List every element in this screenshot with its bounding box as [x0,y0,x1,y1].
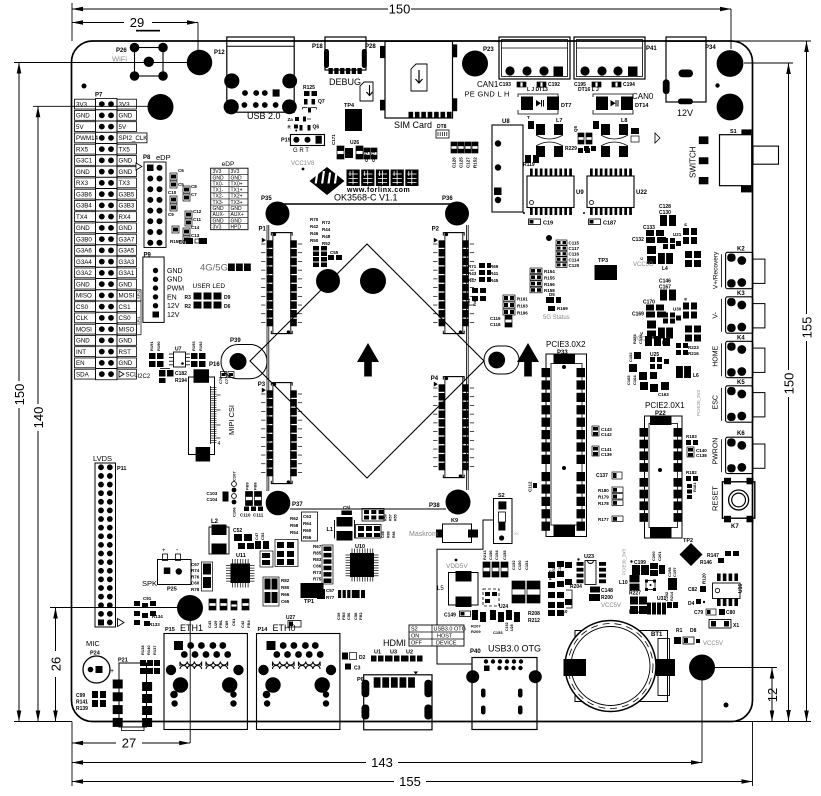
svg-text:C65: C65 [281,599,290,604]
transistor T5 [528,121,534,129]
svg-text:C89: C89 [224,620,229,628]
diamond outline (module area) [250,244,484,478]
svg-text:TX4: TX4 [76,214,88,221]
svg-text:G3B5: G3B5 [119,191,135,198]
svg-text:DT16 L J: DT16 L J [578,87,599,93]
svg-text:Maskrom: Maskrom [409,531,438,538]
svg-text:U2: U2 [406,650,413,656]
svg-text:P7: P7 [95,93,103,99]
svg-text:155: 155 [800,317,815,339]
svg-text:L4: L4 [662,266,668,272]
svg-text:EN: EN [167,294,177,301]
svg-text:C: C [639,332,644,335]
svg-text:L1: L1 [327,527,333,533]
svg-text:150: 150 [389,2,411,17]
svg-text:MOSI: MOSI [119,293,135,300]
svg-text:G3A2: G3A2 [76,270,92,277]
svg-text:V+/Recovery: V+/Recovery [713,251,720,289]
svg-text:R60: R60 [303,528,312,533]
svg-text:R75: R75 [313,577,322,582]
IC U24 [483,589,499,606]
hole in diamond left [316,269,340,293]
svg-text:L2: L2 [211,519,219,525]
CAN0 terminal block P41 [574,37,645,79]
svg-text:VCC1V8: VCC1V8 [291,161,315,167]
svg-text:C6: C6 [178,168,184,173]
svg-text:X1: X1 [733,623,739,629]
svg-text:R50: R50 [310,238,319,243]
svg-text:C80: C80 [726,610,735,616]
svg-text:R138: R138 [140,645,145,655]
svg-text:CLK: CLK [76,315,89,322]
svg-text:FB8: FB8 [253,482,258,490]
svg-text:C61: C61 [231,618,236,626]
svg-text:K5: K5 [737,380,745,386]
svg-text:Q7: Q7 [318,99,325,105]
svg-text:P26: P26 [116,48,127,54]
svg-text:R139: R139 [76,706,88,712]
svg-text:R192: R192 [198,341,203,351]
svg-text:MIPI CSI: MIPI CSI [227,405,236,435]
svg-text:12: 12 [765,688,780,702]
svg-text:C193: C193 [499,82,511,88]
svg-text:C55: C55 [330,250,339,255]
svg-text:L6: L6 [693,373,699,379]
svg-text:R216: R216 [688,351,699,356]
svg-text:R49: R49 [472,298,477,306]
svg-text:D6: D6 [224,304,231,310]
svg-text:R223: R223 [688,345,699,350]
via bottom-right [724,703,729,708]
svg-text:Q6: Q6 [313,125,320,131]
svg-text:P28: P28 [365,44,376,50]
svg-text:R155: R155 [544,275,555,280]
svg-text:R42: R42 [310,224,319,229]
svg-text:P8: P8 [143,155,151,161]
svg-text:U16: U16 [738,584,744,593]
svg-text:C115: C115 [569,241,580,246]
svg-text:R214: R214 [670,591,674,601]
svg-text:C138: C138 [696,453,707,458]
logo text (CJK) [347,170,360,187]
svg-text:C152: C152 [505,622,509,631]
svg-text:K6: K6 [737,431,745,437]
test point TP1 [301,583,324,598]
svg-text:GND: GND [119,338,133,345]
svg-text:CS0: CS0 [76,304,89,311]
svg-text:U1: U1 [374,650,381,656]
svg-text:C169: C169 [632,312,644,318]
svg-text:+: + [162,548,166,554]
svg-text:R224: R224 [632,334,637,344]
dimension 150 top [72,8,388,10]
svg-text:R55: R55 [394,514,398,521]
svg-text:VDD5V: VDD5V [446,563,468,570]
svg-text:MIC: MIC [86,639,100,648]
svg-text:C63: C63 [303,514,312,519]
svg-text:FB4: FB4 [246,620,251,628]
svg-text:27: 27 [122,736,136,751]
push button K5 (ESC) [726,386,753,422]
svg-text:U28: U28 [510,624,514,631]
svg-text:P37: P37 [292,502,303,508]
transistor T1 [646,581,655,590]
svg-text:R70: R70 [310,217,319,222]
svg-text:P14: P14 [258,627,269,633]
svg-text:P1: P1 [259,227,267,233]
svg-text:P11: P11 [117,466,126,472]
board outline [72,41,753,722]
svg-text:R48: R48 [322,234,331,239]
via [82,84,87,89]
svg-text:R47: R47 [468,278,477,283]
svg-text:P36: P36 [442,196,453,202]
dimension 143 bottom [72,762,366,764]
svg-text:D2: D2 [359,655,366,661]
svg-text:C13: C13 [191,233,200,238]
svg-text:C104: C104 [207,497,218,502]
svg-text:R182: R182 [686,470,697,475]
capacitors C156/C154/C155 [483,562,490,577]
svg-text:GND: GND [119,113,133,120]
SIM icon small [360,82,373,101]
svg-text:C139: C139 [601,452,612,457]
svg-text:GND: GND [119,158,133,165]
parts right of U11 box [260,551,273,567]
svg-text:G3B4: G3B4 [76,203,92,210]
svg-text:R58: R58 [290,523,299,528]
mounting hole P12 [187,50,212,75]
svg-text:R208: R208 [528,611,540,617]
svg-text:D5: D5 [549,292,555,297]
svg-text:C91: C91 [143,596,152,601]
svg-text:C148: C148 [601,588,613,594]
mounting hole top-right lower [717,94,744,121]
svg-text:FB9: FB9 [245,482,250,490]
svg-text:PCIE3.0X2: PCIE3.0X2 [546,340,586,349]
svg-text:R161: R161 [517,297,528,302]
svg-text:G3A7: G3A7 [119,236,135,243]
svg-text:C202: C202 [665,592,669,601]
svg-text:C171: C171 [331,134,336,145]
capacitor column C126/C125/C127/R152 [451,142,457,153]
svg-text:R183: R183 [686,434,697,439]
svg-text:C194: C194 [623,82,635,88]
svg-text:5G Status: 5G Status [543,315,570,321]
svg-text:12V: 12V [167,303,180,310]
svg-text:29: 29 [130,15,144,30]
svg-text:P16: P16 [209,362,220,368]
svg-text:R181: R181 [692,482,697,492]
svg-text:VCC5V: VCC5V [601,603,621,609]
svg-text:C153: C153 [493,630,503,635]
svg-text:150: 150 [782,373,797,395]
svg-text:R200: R200 [601,595,613,601]
svg-text:C116: C116 [569,252,580,257]
svg-text:CS1: CS1 [119,304,132,311]
capacitor C199 [630,560,632,562]
svg-text:ETH1: ETH1 [180,623,203,633]
svg-text:P34: P34 [705,45,716,51]
svg-text:R134: R134 [152,614,163,619]
svg-text:PCIE30_3V3: PCIE30_3V3 [622,548,627,575]
svg-text:PCIE2.0X1: PCIE2.0X1 [645,401,685,410]
svg-text:R120: R120 [702,573,707,584]
svg-text:C57: C57 [326,588,335,593]
SIM card connector [385,41,453,118]
svg-text:WiFi: WiFi [112,55,127,64]
svg-text:C149: C149 [444,613,456,619]
test point TP4 [345,109,362,131]
svg-text:143: 143 [371,755,393,770]
mounting hole P23 [462,51,488,77]
svg-text:SPK: SPK [142,579,157,588]
svg-text:MISO: MISO [119,326,135,333]
capacitor C19 [529,219,541,225]
svg-text:RX5: RX5 [76,146,89,153]
svg-text:ON: ON [411,634,419,640]
svg-text:SCL: SCL [126,371,139,378]
svg-text:R146: R146 [700,560,712,566]
svg-text:R133: R133 [149,622,160,627]
mounting hole P34 [717,50,744,77]
svg-text:C120: C120 [569,263,580,268]
svg-text:GND: GND [76,281,90,288]
capacitor C3 [345,664,351,670]
capacitor C182 / resistor R194 [160,368,170,370]
svg-text:CS0: CS0 [119,315,132,322]
svg-text:R169: R169 [557,306,568,311]
svg-text:GND: GND [167,277,183,284]
svg-text:P9: P9 [144,253,152,259]
svg-text:R190: R190 [156,341,161,351]
wire P35 to P37 (double) [266,225,268,491]
capacitor column C115-C120 [556,240,567,245]
svg-text:EN: EN [76,360,85,367]
push button K3 (V-) [726,297,753,333]
svg-text:TX3: TX3 [119,180,131,187]
svg-text:C114: C114 [569,257,580,262]
svg-text:DT8: DT8 [437,124,447,130]
svg-text:C60: C60 [191,581,200,586]
svg-text:PWRON: PWRON [713,438,720,465]
svg-text:R191: R191 [149,341,154,351]
svg-text:R2: R2 [185,304,192,310]
parts cluster below R71 [472,288,478,293]
svg-text:P18: P18 [312,44,323,50]
svg-text:U22: U22 [636,190,648,196]
svg-text:R45: R45 [490,278,499,283]
svg-text:HOME: HOME [713,345,720,366]
svg-text:TP4: TP4 [344,103,355,109]
svg-text:SWITCH: SWITCH [689,146,698,178]
capacitors C141/C139 [592,446,599,456]
svg-text:R1: R1 [676,628,683,634]
svg-text:C3: C3 [354,666,361,672]
svg-text:4G/5G: 4G/5G [200,263,228,274]
svg-text:C48: C48 [381,531,385,538]
push button K6 (PWRON) [726,437,753,473]
svg-text:R77: R77 [326,595,335,600]
svg-text:C51: C51 [466,298,471,306]
svg-text:DT7: DT7 [561,103,571,109]
svg-text:U30: U30 [673,307,682,312]
svg-text:R74: R74 [191,568,200,573]
dimension 12 bottom-right [771,668,773,722]
svg-text:C197: C197 [672,567,677,577]
svg-text:R229: R229 [565,146,577,152]
svg-text:C163: C163 [658,392,669,397]
svg-text:BT1: BT1 [651,632,663,638]
svg-text:+: + [110,668,114,675]
dimension 140 left [37,106,39,404]
svg-text:R196: R196 [517,311,528,316]
filter module above L1 [362,509,384,522]
via [715,83,719,87]
svg-text:G3C1: G3C1 [76,158,93,165]
svg-text:R86: R86 [392,531,396,538]
mounting hole P35 [266,202,290,226]
svg-text:R141: R141 [76,700,88,706]
svg-text:C78: C78 [218,376,223,384]
svg-text:C187: C187 [603,221,616,227]
svg-text:K3: K3 [737,291,745,297]
svg-text:R193: R193 [191,341,196,351]
inductor L6 [676,366,691,378]
svg-text:R180: R180 [598,488,609,493]
svg-text:R212: R212 [528,618,540,624]
svg-text:K9: K9 [451,518,458,524]
svg-text:R194: R194 [175,378,187,384]
svg-text:R178: R178 [598,501,609,506]
svg-text:V-: V- [713,311,720,318]
svg-text:R76: R76 [191,574,200,579]
svg-text:R154: R154 [544,269,555,274]
mounting hole P38 [446,490,471,515]
svg-text:P35: P35 [261,196,272,202]
svg-text:R78: R78 [191,587,200,592]
svg-text:C125: C125 [459,157,464,168]
mounting hole near ETH1 [177,595,203,621]
svg-text:K4: K4 [737,335,745,341]
svg-text:C56: C56 [346,612,351,620]
svg-text:R71: R71 [468,264,477,269]
svg-text:I2C2: I2C2 [138,374,151,380]
svg-text:L5: L5 [437,586,444,592]
capacitor cluster C5-C14 right of P8 [170,173,177,180]
svg-text:C8: C8 [191,184,197,189]
svg-text:C53: C53 [260,532,265,540]
svg-text:G3A5: G3A5 [119,248,135,255]
svg-text:U3: U3 [390,650,397,656]
svg-text:PWM: PWM [167,286,184,293]
svg-text:R80: R80 [281,585,290,590]
svg-text:U9: U9 [576,190,584,196]
svg-text:C152: C152 [628,352,633,362]
svg-text:C164: C164 [632,375,637,385]
orientation arrow 2 [517,343,539,362]
resistor strip R181 [687,484,692,488]
resistor column R161/R163/R196 [503,295,515,301]
svg-text:R137: R137 [152,645,157,655]
svg-text:DEBUG: DEBUG [329,77,361,87]
CAN1 terminal block [499,37,570,79]
svg-text:P15: P15 [165,627,175,633]
svg-text:C112: C112 [528,481,533,492]
svg-text:R163: R163 [517,304,528,309]
svg-text:T: T [527,115,530,120]
svg-text:TP2: TP2 [683,538,693,544]
svg-text:VCC5V: VCC5V [703,641,723,647]
svg-text:U21: U21 [673,232,682,237]
svg-text:C165: C165 [626,375,631,385]
svg-text:P19: P19 [281,138,291,144]
svg-text:C126: C126 [452,157,457,168]
svg-text:C154: C154 [494,550,499,560]
wire P36 to P38 (double) [465,225,467,490]
svg-text:SIM Card: SIM Card [394,120,432,130]
svg-text:C117: C117 [569,246,580,251]
svg-text:P3: P3 [258,382,266,388]
svg-text:C182: C182 [175,371,187,377]
svg-text:GND: GND [167,268,183,275]
IC U16 [717,574,721,582]
svg-text:PCIE20_3V3: PCIE20_3V3 [696,389,701,416]
WiFi antenna connector P26 [135,48,164,77]
svg-text:C19: C19 [543,221,553,227]
svg-text:C152: C152 [511,560,516,570]
svg-text:C134: C134 [638,334,643,344]
svg-text:Za: Za [288,117,294,122]
svg-text:C192: C192 [548,82,560,88]
svg-text:4: 4 [218,441,221,447]
svg-text:C66: C66 [313,564,322,569]
mounting hole P36 [445,202,469,226]
svg-text:C110: C110 [240,513,251,518]
svg-text:C119: C119 [490,316,501,321]
svg-text:GND: GND [76,225,90,232]
svg-text:12V: 12V [677,108,693,118]
svg-text:C79: C79 [694,610,703,616]
svg-text:HOST: HOST [437,634,453,640]
svg-text:K2: K2 [737,246,745,252]
svg-text:L8: L8 [621,118,627,124]
svg-text:S2: S2 [411,627,418,633]
svg-text:U26: U26 [350,140,359,146]
svg-text:C106: C106 [232,507,237,517]
svg-text:G R T: G R T [293,148,309,154]
svg-text:R54: R54 [290,530,299,535]
svg-text:SDA: SDA [76,371,90,378]
svg-text:R177: R177 [598,517,609,522]
battery holder BT1 [575,631,668,702]
svg-text:DEVICE: DEVICE [436,641,457,647]
svg-text:C137: C137 [596,473,608,479]
capacitors C140/C138 [687,447,694,457]
capacitor pads near P16 [221,372,227,378]
svg-text:FB6: FB6 [218,620,223,628]
svg-text:CAN0: CAN0 [632,92,654,101]
svg-text:G3B6: G3B6 [76,191,92,198]
svg-text:C10: C10 [168,190,177,195]
svg-text:P4: P4 [431,376,439,382]
svg-text:R: R [683,298,688,301]
svg-text:C132: C132 [632,237,644,243]
svg-text:G3A3: G3A3 [119,259,135,266]
svg-text:R204: R204 [570,584,582,590]
svg-text:C12: C12 [193,209,202,214]
orientation arrow 1 [357,343,379,362]
